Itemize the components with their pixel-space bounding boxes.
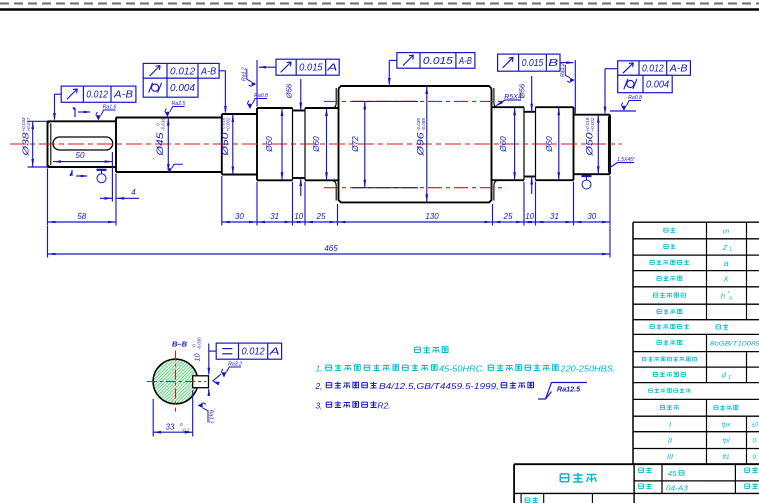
svg-text:Ra3.2: Ra3.2 (207, 410, 213, 424)
label phi72 (351, 136, 360, 153)
svg-text:4: 4 (131, 188, 136, 197)
svg-text:10: 10 (193, 354, 202, 362)
surface flag Ra0.8 on phi50L (247, 93, 268, 109)
svg-text:A-B: A-B (113, 90, 133, 101)
parameter table grid (633, 222, 759, 464)
frame F6 leader (604, 69, 618, 115)
svg-text:Ø50: Ø50 (585, 131, 595, 156)
svg-text:Ø45: Ø45 (155, 131, 165, 156)
dimension 50 keyway (53, 151, 113, 163)
frame F3 runout 0.015 A (276, 59, 339, 75)
svg-text:±0: ±0 (752, 422, 759, 428)
svg-text:II: II (668, 436, 672, 445)
svg-text:Ø50: Ø50 (220, 131, 230, 156)
keyway end extension (111, 152, 113, 202)
svg-text:ff1: ff1 (722, 454, 730, 461)
svg-text:R2.: R2. (377, 401, 390, 411)
svg-text:1: 1 (729, 247, 732, 253)
svg-text:Ø72: Ø72 (351, 136, 360, 153)
svg-text:1.5X45°: 1.5X45° (617, 157, 635, 163)
dimension phi60 L1 (281, 108, 284, 180)
lead direction mark left top (73, 108, 92, 118)
dimension phi50 right (597, 115, 600, 175)
extension line step phi50 right (574, 60, 576, 114)
section label B-B (172, 340, 188, 349)
surface flag Ra1.2 rotated right (560, 63, 575, 82)
svg-text:0.: 0. (752, 455, 757, 461)
svg-text:A-B: A-B (200, 66, 216, 77)
svg-text:50: 50 (76, 151, 85, 160)
svg-text:58: 58 (77, 212, 86, 221)
tech req line1 (315, 364, 615, 374)
svg-text:Ra0.8: Ra0.8 (628, 95, 642, 101)
svg-text:B–B: B–B (172, 340, 188, 349)
label phi56 right (518, 83, 527, 99)
label 10 keyway width (192, 337, 202, 362)
frame F1 leader (53, 94, 61, 121)
sheet top dashed border (0, 3, 759, 5)
svg-text:m: m (723, 226, 729, 235)
svg-text:31: 31 (550, 212, 559, 221)
svg-text:Ø60: Ø60 (265, 136, 274, 153)
svg-text:+0.002: +0.002 (225, 117, 230, 131)
svg-text:465: 465 (324, 244, 338, 253)
dimension phi45 (167, 118, 170, 173)
dimension phi96 (425, 86, 428, 202)
dimension phi56 left (299, 79, 302, 196)
shaft centerline (10, 143, 622, 145)
label phi45 (155, 118, 165, 157)
label phi60 R1 (499, 136, 508, 153)
datum mark left bottom (70, 170, 89, 177)
svg-text:h: h (721, 291, 725, 300)
worm root ext lines (352, 101, 418, 187)
surface flag Ra1.2 rotated left (242, 67, 257, 86)
svg-text:Ra12.5: Ra12.5 (557, 385, 581, 394)
svg-text:Ra1.2: Ra1.2 (560, 63, 566, 77)
svg-text:III: III (667, 452, 673, 461)
svg-text:3,: 3, (315, 401, 322, 411)
frame F4 runout 0.015 A-B (397, 53, 475, 69)
svg-text:Ø96: Ø96 (416, 131, 426, 156)
frame F5 runout 0.015 B (498, 54, 560, 71)
svg-text:30: 30 (587, 212, 596, 221)
chamfer callout right end (610, 157, 635, 168)
svg-text:+0.002: +0.002 (590, 117, 595, 131)
svg-text:-0.089: -0.089 (421, 118, 426, 131)
label phi50 left (220, 117, 230, 157)
svg-text:45-50HRC.: 45-50HRC. (439, 364, 485, 374)
worm left relief groove (331, 88, 336, 201)
svg-text:+0.017: +0.017 (26, 117, 31, 131)
extension line step phi60 left (256, 60, 258, 107)
svg-text:0.012: 0.012 (170, 66, 195, 77)
svg-text:Ra0.8: Ra0.8 (254, 93, 268, 99)
svg-text:Ø60: Ø60 (312, 136, 321, 153)
svg-text:31: 31 (270, 212, 279, 221)
svg-text:33: 33 (166, 423, 175, 432)
svg-text:45: 45 (668, 469, 677, 478)
svg-text:X: X (722, 275, 729, 284)
worm right relief groove (494, 88, 499, 201)
dimension phi56 right (530, 76, 533, 194)
svg-text:04-A3: 04-A3 (666, 486, 688, 493)
svg-text:10: 10 (525, 212, 534, 221)
frame F6 runout 0.012 A-B (618, 61, 691, 76)
section centerline horizontal (147, 381, 206, 383)
label phi60 L2 (312, 136, 321, 153)
svg-text:1,: 1, (315, 364, 322, 374)
dimension phi50 left (232, 114, 235, 175)
section keyway notch rect (193, 376, 209, 388)
svg-text:25: 25 (503, 212, 513, 221)
dimension 4 (100, 188, 139, 200)
shaft step faces (48, 107, 611, 180)
tech req Ra12.5 flag (538, 383, 587, 400)
svg-text:10: 10 (294, 212, 303, 221)
svg-text:2,: 2, (314, 381, 322, 391)
surface flag Ra1.6 on phi38 (96, 105, 117, 121)
section flag Ra3.2 (213, 362, 243, 386)
svg-text:Z: Z (722, 243, 728, 252)
tech req title (415, 346, 448, 353)
frame F2 cylindricity 0.004 (143, 78, 198, 97)
svg-text:A-B: A-B (669, 64, 688, 75)
label phi60 L1 (265, 136, 274, 153)
svg-text:0.015: 0.015 (423, 56, 453, 67)
svg-text:Ø60: Ø60 (545, 136, 554, 153)
svg-text:fpx: fpx (722, 421, 731, 428)
label phi50 right (585, 117, 595, 157)
svg-text:130: 130 (425, 212, 439, 221)
svg-text:Ø56: Ø56 (285, 83, 294, 99)
svg-text:0.004: 0.004 (170, 83, 195, 94)
dimension 465 (48, 244, 611, 255)
dimension row1 texts (77, 212, 596, 221)
section dim 33 ext (153, 390, 193, 437)
dimension phi60 R2 (557, 107, 560, 180)
svg-text:-0.036: -0.036 (197, 337, 202, 350)
section circle outline (153, 359, 198, 404)
svg-text:0.: 0. (752, 439, 757, 445)
svg-text:25: 25 (316, 212, 326, 221)
tech req line3 (315, 401, 390, 411)
svg-text:Ra3.2: Ra3.2 (228, 362, 242, 368)
keyway outline (53, 137, 113, 150)
shaft horizontal outlines (48, 86, 611, 202)
label phi38 (21, 117, 31, 157)
svg-text:Ra1.2: Ra1.2 (242, 67, 248, 81)
frame symmetry 0.012 A (216, 343, 281, 359)
svg-text:I: I (669, 420, 671, 429)
surface flag Ra0.8 on phi50R (610, 95, 642, 111)
svg-text:0.015: 0.015 (522, 58, 544, 69)
dimension phi60 L2 (325, 108, 328, 180)
svg-text:8cGB/T10089: 8cGB/T10089 (710, 342, 759, 348)
svg-text:Ø60: Ø60 (499, 136, 508, 153)
svg-text:30: 30 (235, 212, 244, 221)
worm reference line bottom (324, 187, 502, 189)
svg-text:a: a (724, 258, 729, 268)
svg-text:A-B: A-B (458, 56, 472, 67)
frame F2 runout 0.012 A-B (143, 63, 219, 78)
dimension phi60 R1 (513, 107, 516, 180)
dimension phi72 (363, 101, 366, 187)
label phi60 R2 (545, 136, 554, 153)
datum circle A left (97, 170, 107, 183)
svg-text:a: a (729, 296, 732, 302)
svg-text:Ra1.6: Ra1.6 (103, 105, 117, 111)
svg-text:0.012: 0.012 (242, 347, 266, 358)
svg-text:0.012: 0.012 (642, 64, 664, 75)
frame F6 cylindricity 0.004 (618, 75, 673, 92)
svg-text:Ra2.5: Ra2.5 (172, 101, 186, 107)
svg-text:0.012: 0.012 (86, 90, 108, 101)
frame F3 leader (258, 66, 276, 69)
section flag rotated (198, 403, 214, 424)
datum circle B right (582, 176, 592, 189)
dimension phi38 ext+line (28, 121, 48, 167)
frame F1 runout 0.012 A-B (61, 86, 136, 102)
svg-text:A: A (326, 63, 338, 74)
svg-text:220-250HBS.: 220-250HBS. (559, 364, 615, 374)
extension lines bottom row1 (48, 169, 611, 226)
svg-text:-0.2: -0.2 (182, 428, 190, 433)
svg-text:B: B (548, 58, 558, 69)
section circle hatch (116, 352, 295, 412)
extension lines row2 (48, 226, 611, 258)
label phi56 left (285, 83, 294, 99)
title block texts (525, 467, 758, 503)
tech req line2 (314, 381, 533, 391)
frame F5 leader (560, 61, 574, 64)
svg-text:A: A (268, 347, 280, 358)
surface flag Ra2.5 on phi45 (165, 101, 186, 117)
svg-text:-0.016: -0.016 (160, 118, 165, 131)
worm reference line top (324, 100, 502, 102)
svg-text:fpl: fpl (723, 438, 730, 445)
svg-text:0.004: 0.004 (646, 80, 670, 91)
svg-text:0: 0 (180, 422, 183, 427)
sheet top frame line (0, 8, 759, 10)
svg-text:B4/12.5,GB/T4459.5-1999,: B4/12.5,GB/T4459.5-1999, (379, 381, 499, 391)
frame symmetry leader (208, 344, 217, 397)
title block grid (514, 464, 759, 503)
svg-text:Ø38: Ø38 (21, 132, 31, 157)
section centerline vertical (175, 351, 177, 412)
svg-text:d: d (722, 371, 727, 380)
surface flag small on phi45 bottom (168, 164, 183, 172)
frame F2 leader (219, 71, 227, 114)
parameter table texts (642, 226, 759, 461)
frame F4 leader (388, 60, 397, 86)
svg-text:0.015: 0.015 (299, 63, 323, 74)
svg-text:1: 1 (728, 375, 731, 381)
groove label R5X4 (496, 94, 522, 106)
label phi96 (416, 118, 426, 157)
dimension row1 lines (48, 221, 611, 224)
section dim 33 (153, 422, 193, 434)
